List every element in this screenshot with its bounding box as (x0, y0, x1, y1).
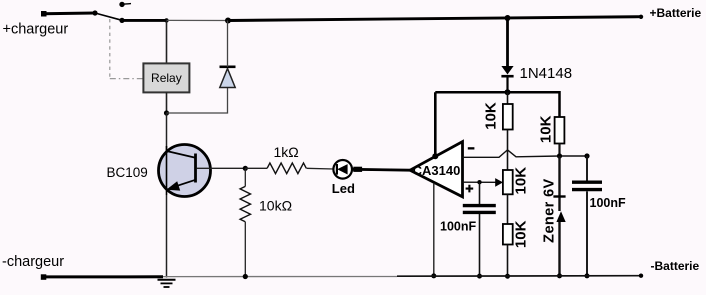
ground (158, 280, 176, 287)
wire bottom rail thick (43, 275, 163, 278)
wire op-amp to bottom rail (433, 183, 435, 276)
node relay/diode/collector (164, 110, 169, 115)
svg-text:Zener 6V: Zener 6V (542, 178, 558, 242)
diode D1 snubber (220, 67, 236, 88)
capacitor C1 100nF (at + input) (463, 180, 496, 277)
wire LED to op-amp output thick (353, 167, 362, 172)
wire bottom rail right (397, 275, 641, 278)
potentiometer P1 10K (503, 170, 513, 194)
plus sign (466, 185, 474, 193)
wire feedback node horizontal (435, 92, 559, 117)
node base/divider (243, 166, 248, 171)
node 10kOhm rail (243, 274, 248, 279)
mechanical link dash-dot horizontal (110, 78, 144, 80)
svg-text:10K: 10K (513, 220, 530, 248)
wire non-inverting input (463, 181, 496, 183)
node -Batterie end (639, 274, 643, 278)
node R4 rail (505, 274, 510, 279)
node C2 rail (585, 273, 590, 278)
node switch/rail (119, 18, 124, 23)
wire feedback vertical thick (434, 92, 437, 156)
wire R3 to pot (507, 130, 509, 171)
wire collector column (166, 113, 168, 152)
svg-text:10K: 10K (483, 102, 500, 130)
wire top rail thick right segment (228, 17, 641, 21)
wire ref to zener (558, 156, 560, 211)
wire R4 to rail (507, 245, 509, 277)
resistor R4 10K (503, 224, 513, 245)
switch open contact node (119, 2, 124, 7)
node on op-amp top edge (432, 153, 438, 159)
svg-text:100nF: 100nF (440, 220, 476, 234)
wire diode to rail (227, 21, 229, 67)
svg-text:10K: 10K (538, 115, 555, 143)
svg-text:+chargeur: +chargeur (3, 22, 69, 38)
svg-text:+Batterie: +Batterie (650, 6, 702, 20)
wire R5 to ref node (558, 144, 560, 157)
node diode column (225, 18, 231, 24)
svg-text:100nF: 100nF (590, 196, 626, 210)
op-amp U1 CA3140 (410, 142, 463, 197)
wire inverting input with hop (463, 150, 588, 157)
wire pot to R4 (507, 194, 509, 224)
svg-text:10kΩ: 10kΩ (259, 198, 292, 214)
svg-text:1kΩ: 1kΩ (274, 144, 299, 160)
node divider top (505, 89, 511, 95)
relay K1 (143, 63, 189, 92)
zener DZ1 6V (553, 197, 565, 223)
resistor R3 10K (503, 92, 513, 129)
wire top rail thin segment (167, 19, 229, 21)
wire relay to node (166, 92, 168, 113)
node ref (557, 153, 562, 158)
wire rail to relay (166, 20, 168, 63)
node relay column (164, 18, 168, 22)
node C1 rail (477, 274, 482, 279)
terminal square -chargeur (41, 274, 47, 280)
transistor Q1 BC109 (159, 145, 211, 197)
wire top-left thick (43, 12, 95, 16)
wire 1N4148 to node (506, 76, 508, 92)
wiper arrow (495, 178, 503, 187)
node zener rail (557, 273, 562, 278)
switch pivot node (92, 10, 97, 15)
node top rail (505, 15, 511, 21)
diode D2 1N4148 (501, 66, 513, 76)
switch blade (95, 13, 122, 20)
switch open contact stub wire (125, 3, 132, 6)
wire emitter to ground (166, 195, 168, 278)
wire base (197, 167, 246, 169)
node at rail (431, 273, 436, 278)
resistor R2 10kOhm (240, 168, 250, 276)
LED DL1 (333, 160, 352, 179)
wire zener to rail (558, 222, 560, 277)
svg-text:-Batterie: -Batterie (651, 259, 700, 273)
svg-text:Relay: Relay (151, 71, 182, 85)
wire node to diode bottom (167, 88, 228, 114)
wire top rail thick left segment (122, 19, 167, 22)
resistor R1 1kOhm (245, 163, 333, 174)
wire bottom rail gray (163, 276, 397, 278)
wire top rail to 1N4148 (506, 18, 509, 66)
terminal square +chargeur (41, 11, 47, 17)
svg-text:1N4148: 1N4148 (520, 65, 573, 82)
svg-text:-chargeur: -chargeur (2, 254, 64, 270)
capacitor C2 100nF (reference) (572, 156, 602, 277)
node cap top (584, 153, 589, 158)
svg-text:BC109: BC109 (107, 165, 148, 180)
resistor R5 10K (555, 117, 565, 144)
mechanical link dashed vertical (109, 19, 111, 79)
svg-text:10K: 10K (512, 167, 529, 195)
svg-text:CA3140: CA3140 (413, 163, 461, 178)
minus sign (468, 147, 475, 149)
svg-text:Led: Led (332, 181, 355, 196)
node +Batterie end (639, 15, 643, 19)
